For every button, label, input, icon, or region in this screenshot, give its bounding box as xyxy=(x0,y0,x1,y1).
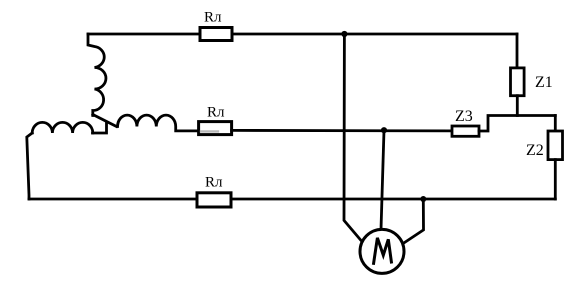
inductor W2 (right winding, phase B) xyxy=(118,115,199,131)
wire Z3 to junction under Z1 xyxy=(479,116,555,132)
node B (junction dot middle line) xyxy=(381,127,387,133)
wire top line down to Z1 xyxy=(516,34,519,68)
motor M (circle) xyxy=(360,229,404,273)
svg-text:Rл: Rл xyxy=(204,10,222,26)
motor lead 1 (from top line) xyxy=(344,34,363,242)
svg-text:Z3: Z3 xyxy=(455,108,473,125)
svg-text:Rл: Rл xyxy=(207,105,225,121)
wire junction down to Z2 xyxy=(554,116,557,132)
wire Z2 bottom to bottom line xyxy=(554,160,557,199)
svg-text:Rл: Rл xyxy=(205,175,223,191)
node A (junction dot top line) xyxy=(341,31,347,37)
motor lead 2 (from middle line) xyxy=(381,130,384,229)
wire bottom line (phase C) xyxy=(29,198,555,201)
wire Z1 bottom to junction xyxy=(516,96,519,116)
motor M letter xyxy=(374,238,392,263)
inductor W3 (left winding, phase C) xyxy=(32,122,93,133)
impedance Z3 xyxy=(452,126,479,136)
wire left drop (phase C to bottom line) xyxy=(27,133,32,199)
impedance Z1 xyxy=(511,68,525,96)
resistor Rл1 (top line) xyxy=(200,28,232,41)
wire middle line (phase B) xyxy=(232,129,452,132)
resistor Rл3 (bottom line) xyxy=(197,193,231,207)
motor lead 3 (from bottom line) xyxy=(403,199,424,244)
svg-text:Z2: Z2 xyxy=(526,142,544,159)
svg-text:Z1: Z1 xyxy=(535,74,553,91)
node C (junction dot bottom line) xyxy=(420,196,426,202)
inductor W1 (vertical winding, phase A) xyxy=(88,34,106,116)
wire top line (phase A) xyxy=(88,33,517,36)
impedance Z2 xyxy=(548,131,563,160)
wire scan smear inside Rл2 xyxy=(201,130,218,132)
wire star-point junction xyxy=(93,115,117,134)
resistor Rл2 (middle line) xyxy=(199,122,232,135)
